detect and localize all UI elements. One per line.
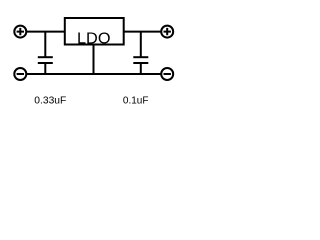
terminal T4 negative output (161, 68, 173, 80)
svg-text:0.33uF: 0.33uF (34, 95, 66, 106)
svg-text:0.1uF: 0.1uF (123, 95, 149, 106)
capacitor C1 0.33uF (38, 32, 53, 74)
wire input top rail (26, 31, 65, 33)
terminal T2 positive output (161, 26, 173, 38)
terminal T1 positive input (14, 26, 26, 38)
terminal T3 negative input (14, 68, 26, 80)
wire ground pin of regulator (93, 45, 95, 75)
wire output top rail (124, 31, 162, 33)
regulator U1 LDO box (65, 18, 124, 45)
wire bottom rail (26, 73, 161, 75)
capacitor C2 0.1uF (133, 32, 148, 74)
